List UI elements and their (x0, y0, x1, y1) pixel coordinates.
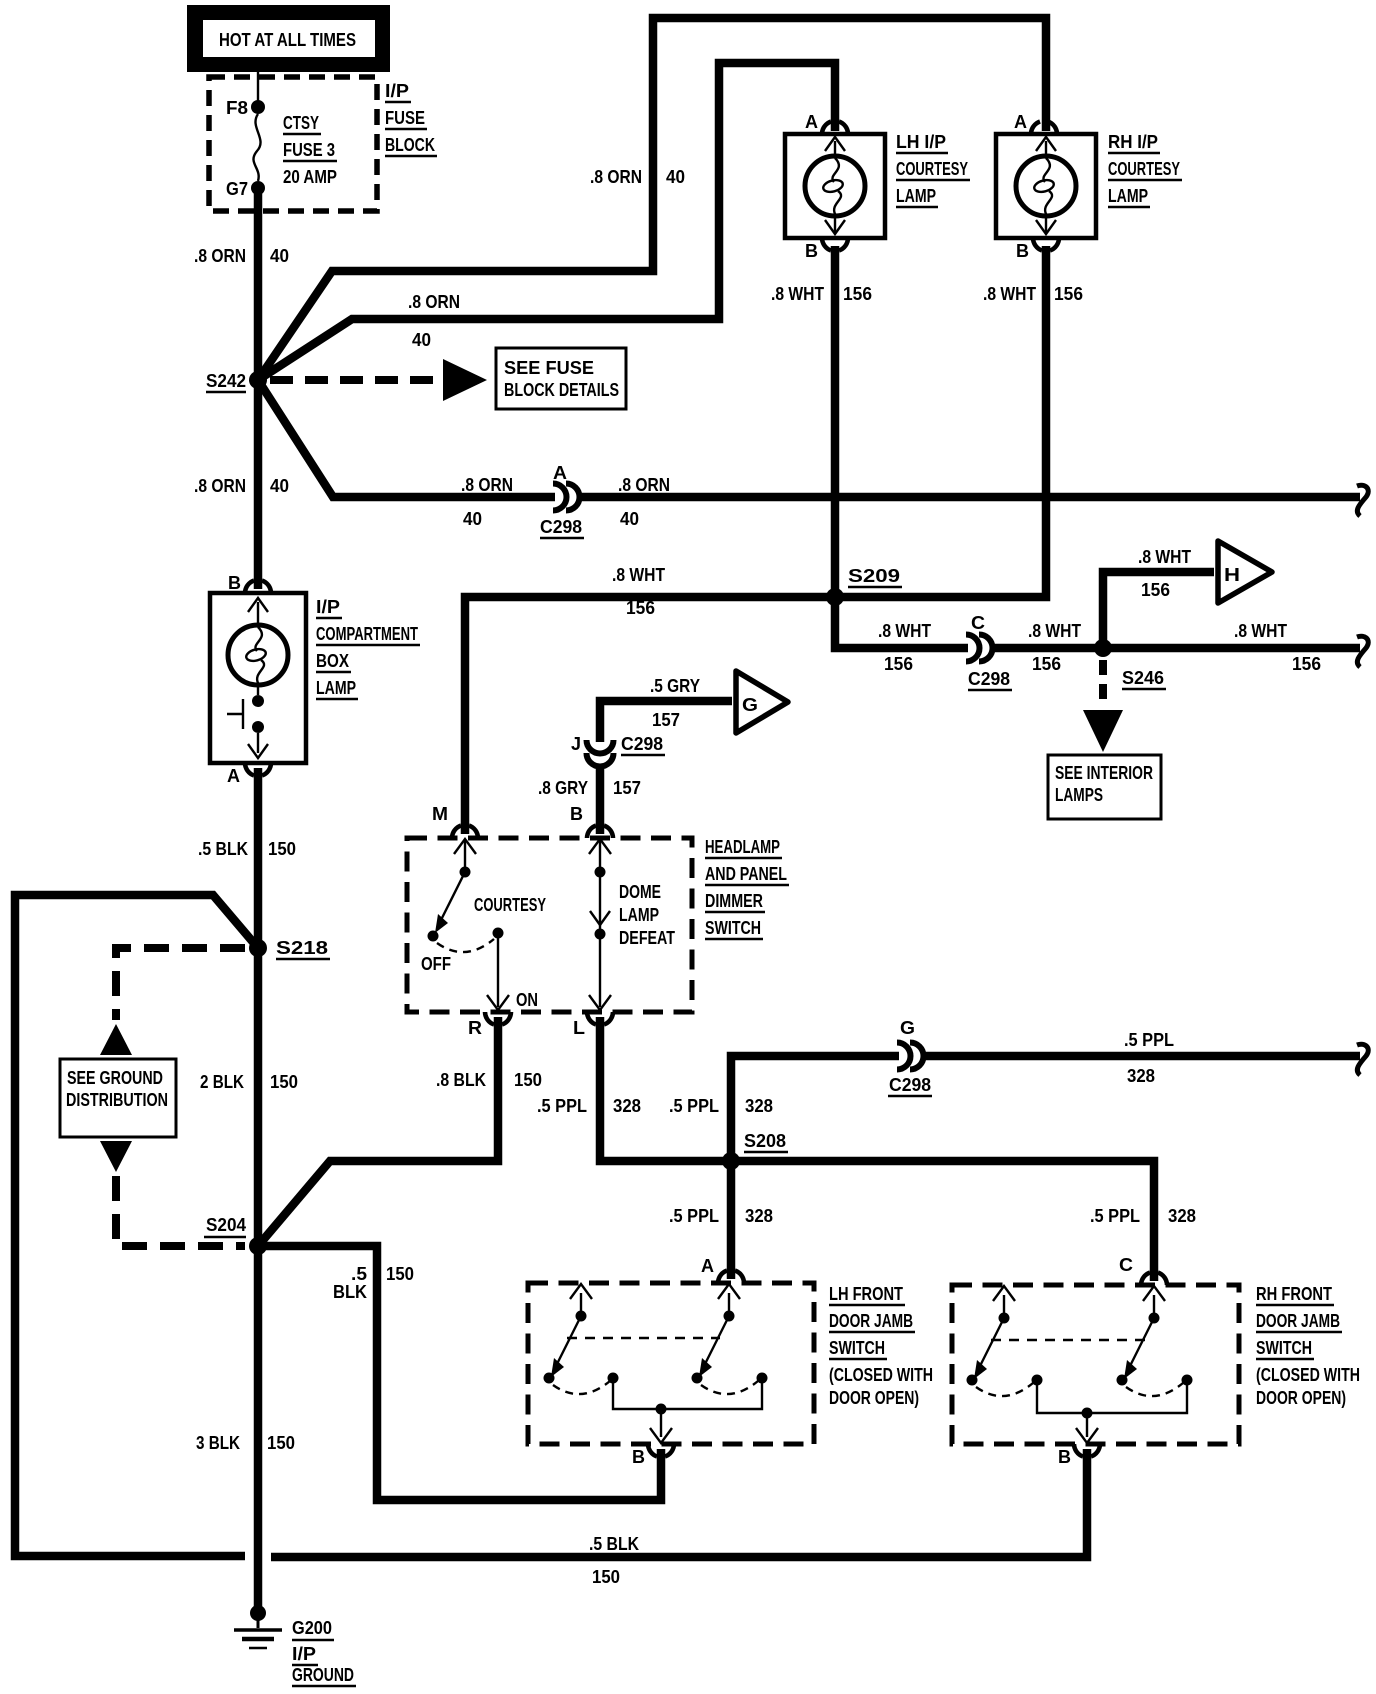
dashed link S218 to ground distribution (116, 948, 245, 1020)
switch label RH FRONT DOOR JAMB SWITCH (1256, 1284, 1360, 1408)
svg-text:40: 40 (620, 509, 639, 529)
svg-text:SEE GROUND: SEE GROUND (67, 1068, 163, 1088)
dashed arrow to fuse block details (270, 376, 441, 384)
svg-text:156: 156 (1292, 654, 1321, 674)
note box SEE FUSE BLOCK DETAILS (496, 348, 626, 409)
connector C298 pin C (966, 613, 1012, 690)
svg-text:RH I/P: RH I/P (1108, 132, 1158, 152)
ground G200 I/P GROUND (234, 1605, 356, 1686)
svg-text:C298: C298 (540, 517, 582, 537)
svg-text:DEFEAT: DEFEAT (619, 928, 675, 948)
svg-text:S208: S208 (744, 1131, 786, 1151)
svg-text:SEE FUSE: SEE FUSE (504, 358, 594, 378)
compartment lamp terminal B (228, 573, 271, 593)
RH door jamb switch terminal B (1058, 1444, 1100, 1467)
svg-text:.8 ORN: .8 ORN (590, 167, 642, 187)
svg-text:S209: S209 (848, 566, 900, 586)
splice node S209 (826, 588, 844, 606)
svg-text:B: B (632, 1447, 645, 1467)
svg-text:C298: C298 (621, 734, 663, 754)
splice node S246 (1094, 639, 1112, 657)
wire .8 GRY 157 J to dimmer switch B (596, 765, 605, 834)
svg-text:2 BLK: 2 BLK (200, 1072, 244, 1092)
lamp LH I/P COURTESY LAMP (785, 132, 970, 238)
svg-text:M: M (432, 804, 448, 824)
svg-text:I/P: I/P (316, 597, 340, 617)
svg-text:SWITCH: SWITCH (829, 1338, 885, 1358)
svg-text:AND PANEL: AND PANEL (705, 864, 787, 884)
splice node S218 (249, 939, 267, 957)
svg-text:BLK: BLK (333, 1282, 367, 1302)
switch RH FRONT DOOR JAMB dashed box (952, 1285, 1239, 1444)
svg-text:I/P: I/P (385, 81, 409, 101)
svg-text:156: 156 (626, 598, 655, 618)
dimmer switch courtesy contacts (421, 839, 546, 1010)
lamp I/P COMPARTMENT BOX LAMP (210, 593, 420, 763)
svg-text:OFF: OFF (421, 954, 451, 974)
svg-text:HOT AT ALL TIMES: HOT AT ALL TIMES (219, 30, 356, 50)
dimmer switch terminal M (432, 804, 478, 838)
svg-text:B: B (805, 241, 818, 261)
lamp RH I/P COURTESY LAMP (996, 132, 1182, 238)
wire .8 WHT 156 RH lamp B to S209 (840, 246, 1046, 597)
RH door jamb switch output junction (1076, 1408, 1098, 1444)
left return wire to S218 (15, 895, 258, 1556)
wire .8 WHT 156 S246 up to H (1103, 572, 1214, 648)
svg-text:SEE INTERIOR: SEE INTERIOR (1055, 763, 1153, 783)
svg-text:B: B (1016, 241, 1029, 261)
LH door jamb switch terminal B (632, 1444, 674, 1467)
dimmer switch dome lamp defeat contacts (589, 839, 675, 1010)
svg-text:C: C (1119, 1255, 1133, 1275)
RH courtesy lamp terminal B (1016, 238, 1059, 261)
splice node S208 (722, 1152, 740, 1170)
RH courtesy lamp terminal A (1014, 112, 1057, 134)
svg-text:DOOR OPEN): DOOR OPEN) (1256, 1388, 1346, 1408)
svg-text:FUSE: FUSE (385, 108, 425, 128)
dimmer switch terminal L (573, 1012, 613, 1038)
svg-text:H: H (1224, 565, 1240, 585)
wire .5 GRY 157 to G (600, 701, 732, 742)
svg-text:DIMMER: DIMMER (705, 891, 763, 911)
svg-text:DOME: DOME (619, 882, 661, 902)
svg-text:.8 WHT: .8 WHT (1138, 547, 1191, 567)
svg-text:ON: ON (516, 990, 538, 1010)
svg-text:F8: F8 (226, 98, 248, 118)
svg-text:BOX: BOX (316, 651, 349, 671)
LH door jamb switch output junction (650, 1404, 672, 1444)
svg-text:.5 PPL: .5 PPL (1124, 1030, 1174, 1050)
svg-text:156: 156 (1054, 284, 1083, 304)
dimmer switch terminal R (468, 1012, 511, 1038)
I/P fuse block dashed box (209, 77, 377, 211)
svg-text:328: 328 (1127, 1066, 1155, 1086)
svg-text:DOOR JAMB: DOOR JAMB (829, 1311, 913, 1331)
svg-text:BLOCK DETAILS: BLOCK DETAILS (504, 380, 619, 400)
off-page triangle H (1218, 541, 1272, 603)
svg-text:157: 157 (613, 778, 641, 798)
splice node S242 (249, 371, 267, 389)
svg-text:156: 156 (884, 654, 913, 674)
svg-text:.5 PPL: .5 PPL (537, 1096, 587, 1116)
svg-text:156: 156 (1141, 580, 1170, 600)
pin G7 (251, 181, 265, 195)
wire S242 to RH courtesy lamp A (outer loop) (258, 18, 1046, 380)
svg-text:FUSE 3: FUSE 3 (283, 140, 335, 160)
svg-text:SWITCH: SWITCH (705, 918, 761, 938)
svg-text:C298: C298 (968, 669, 1010, 689)
off-page triangle G (736, 671, 788, 733)
wire .5 BLK 150 S204 to LH door jamb B (258, 1246, 661, 1500)
dimmer switch terminal B (570, 804, 613, 838)
wire S242 to LH courtesy lamp A (inner loop) .8 ORN 40 (258, 63, 835, 380)
wire .8 WHT 156 S209 down to C298 C (835, 597, 968, 648)
svg-text:G: G (742, 695, 758, 715)
continuation hook (1357, 636, 1368, 667)
RH door jamb switch right contacts (1089, 1286, 1193, 1413)
LH door jamb switch terminal A (701, 1256, 744, 1283)
svg-text:SWITCH: SWITCH (1256, 1338, 1312, 1358)
svg-text:328: 328 (1168, 1206, 1196, 1226)
svg-text:150: 150 (386, 1264, 414, 1284)
svg-text:B: B (570, 804, 583, 824)
svg-text:156: 156 (1032, 654, 1061, 674)
svg-text:.8 ORN: .8 ORN (194, 476, 246, 496)
svg-text:LAMP: LAMP (896, 186, 936, 206)
power feed box HOT AT ALL TIMES (187, 5, 390, 72)
svg-text:157: 157 (652, 710, 680, 730)
svg-text:328: 328 (745, 1206, 773, 1226)
svg-text:.8 WHT: .8 WHT (771, 284, 824, 304)
svg-text:LH FRONT: LH FRONT (829, 1284, 903, 1304)
connector C298 pin G (888, 1018, 932, 1096)
svg-text:S246: S246 (1122, 668, 1164, 688)
wire .8 ORN 40 fuse to S242 (254, 193, 263, 589)
continuation hook (1357, 1044, 1368, 1075)
continuation hook (1357, 485, 1368, 516)
svg-text:B: B (228, 573, 241, 593)
wire .8 WHT 156 C298 to S246 (991, 644, 1360, 653)
pin F8 (251, 100, 265, 114)
svg-text:LAMP: LAMP (619, 905, 659, 925)
svg-text:A: A (227, 766, 240, 786)
svg-text:COURTESY: COURTESY (896, 159, 968, 179)
svg-text:328: 328 (745, 1096, 773, 1116)
svg-text:COURTESY: COURTESY (474, 895, 546, 915)
svg-text:150: 150 (270, 1072, 298, 1092)
dashed link ground distribution to S204 (100, 1141, 132, 1172)
note box SEE INTERIOR LAMPS (1048, 755, 1161, 819)
svg-text:.8 WHT: .8 WHT (878, 621, 931, 641)
svg-text:(CLOSED WITH: (CLOSED WITH (1256, 1365, 1360, 1385)
switch label HEADLAMP AND PANEL DIMMER SWITCH (705, 837, 789, 939)
svg-text:150: 150 (592, 1567, 620, 1587)
svg-text:.5 PPL: .5 PPL (669, 1096, 719, 1116)
svg-text:BLOCK: BLOCK (385, 135, 435, 155)
connector C298 pin A (540, 463, 584, 538)
svg-text:.8 ORN: .8 ORN (408, 292, 460, 312)
wire .5 PPL 328 S208 down to LH door jamb A (727, 1161, 736, 1279)
svg-text:S242: S242 (206, 371, 246, 391)
LH courtesy lamp terminal A (805, 112, 848, 134)
svg-text:40: 40 (270, 476, 289, 496)
wire .8 WHT 156 S209 to dimmer switch M (465, 597, 835, 834)
wire .8 BLK 150 dimmer R to S204 (258, 1017, 498, 1246)
svg-text:LAMP: LAMP (316, 678, 356, 698)
svg-text:.8 WHT: .8 WHT (612, 565, 665, 585)
wire .8 WHT 156 LH lamp B to S209 (831, 246, 840, 600)
svg-text:HEADLAMP: HEADLAMP (705, 837, 780, 857)
svg-text:328: 328 (613, 1096, 641, 1116)
wire .5 PPL 328 C298 G to right edge (922, 1052, 1360, 1061)
svg-text:150: 150 (268, 839, 296, 859)
svg-text:156: 156 (843, 284, 872, 304)
svg-text:.8 ORN: .8 ORN (461, 475, 513, 495)
svg-text:DOOR OPEN): DOOR OPEN) (829, 1388, 919, 1408)
svg-text:.5 BLK: .5 BLK (198, 839, 248, 859)
svg-text:R: R (468, 1018, 482, 1038)
svg-text:150: 150 (514, 1070, 542, 1090)
svg-text:CTSY: CTSY (283, 113, 319, 133)
svg-text:COMPARTMENT: COMPARTMENT (316, 624, 418, 644)
svg-text:.5 BLK: .5 BLK (589, 1534, 639, 1554)
svg-text:40: 40 (270, 246, 289, 266)
wire .5 PPL 328 S208 right to RH door jamb C (731, 1161, 1154, 1281)
svg-text:LAMP: LAMP (1108, 186, 1148, 206)
svg-text:150: 150 (267, 1433, 295, 1453)
switch HEADLAMP AND PANEL DIMMER SWITCH dashed box (407, 838, 692, 1012)
svg-text:40: 40 (463, 509, 482, 529)
svg-text:RH FRONT: RH FRONT (1256, 1284, 1332, 1304)
svg-text:LH I/P: LH I/P (896, 132, 946, 152)
svg-text:.8 WHT: .8 WHT (1234, 621, 1287, 641)
dashed arrow S246 to see interior lamps (1099, 660, 1107, 708)
svg-text:G200: G200 (292, 1618, 332, 1638)
RH door jamb switch left contacts (967, 1286, 1086, 1413)
LH door jamb switch gang link (567, 1337, 720, 1339)
svg-text:.8 ORN: .8 ORN (618, 475, 670, 495)
LH courtesy lamp terminal B (805, 238, 848, 261)
wire .5 BLK 150 bottom run to RH door jamb B (271, 1449, 1087, 1557)
svg-text:DOOR JAMB: DOOR JAMB (1256, 1311, 1340, 1331)
svg-text:I/P: I/P (292, 1644, 316, 1664)
svg-text:20 AMP: 20 AMP (283, 167, 337, 187)
svg-text:.8 WHT: .8 WHT (983, 284, 1036, 304)
svg-text:A: A (805, 112, 818, 132)
connector C298 pin J (571, 734, 665, 767)
svg-text:G7: G7 (226, 179, 248, 199)
svg-text:L: L (573, 1018, 585, 1038)
svg-text:.5: .5 (351, 1264, 367, 1284)
splice node S204 (249, 1237, 267, 1255)
svg-text:.8 GRY: .8 GRY (538, 778, 588, 798)
svg-text:COURTESY: COURTESY (1108, 159, 1180, 179)
svg-text:A: A (701, 1256, 714, 1276)
LH door jamb switch left contacts (544, 1284, 660, 1409)
svg-text:40: 40 (412, 330, 431, 350)
switch LH FRONT DOOR JAMB dashed box (528, 1283, 814, 1444)
fuse block label I/P FUSE BLOCK (385, 81, 437, 156)
svg-text:.8 BLK: .8 BLK (436, 1070, 486, 1090)
note box SEE GROUND DISTRIBUTION (60, 1059, 176, 1137)
svg-text:A: A (1014, 112, 1027, 132)
svg-text:DISTRIBUTION: DISTRIBUTION (66, 1090, 168, 1110)
switch label LH FRONT DOOR JAMB SWITCH (829, 1284, 933, 1408)
svg-text:B: B (1058, 1447, 1071, 1467)
svg-text:.5 PPL: .5 PPL (669, 1206, 719, 1226)
svg-text:3 BLK: 3 BLK (196, 1433, 240, 1453)
svg-text:.8 ORN: .8 ORN (194, 246, 246, 266)
wire from power box to fuse F8 (257, 72, 259, 103)
wire .5 PPL 328 dimmer L to S208 (600, 1017, 727, 1161)
svg-text:C298: C298 (889, 1075, 931, 1095)
svg-text:40: 40 (666, 167, 685, 187)
wire .8 ORN 40 to right edge (578, 493, 1360, 502)
svg-text:C: C (971, 613, 985, 633)
svg-text:(CLOSED WITH: (CLOSED WITH (829, 1365, 933, 1385)
RH door jamb switch terminal C (1119, 1255, 1167, 1285)
LH door jamb switch right contacts (663, 1284, 768, 1409)
svg-text:.8 WHT: .8 WHT (1028, 621, 1081, 641)
wire S242 right .8 ORN 40 to C298 A (258, 380, 555, 497)
svg-text:GROUND: GROUND (292, 1665, 354, 1685)
svg-text:.5 GRY: .5 GRY (650, 676, 700, 696)
fuse CTSY FUSE 3 20 AMP (253, 113, 337, 187)
compartment lamp terminal A (227, 763, 271, 786)
svg-text:J: J (571, 734, 581, 754)
wire .5 BLK 150 lamp A to S218 (254, 768, 263, 1613)
svg-text:LAMPS: LAMPS (1055, 785, 1103, 805)
svg-text:S204: S204 (206, 1215, 246, 1235)
svg-text:G: G (900, 1018, 915, 1038)
svg-text:S218: S218 (276, 938, 328, 958)
RH door jamb switch gang link (991, 1339, 1145, 1341)
wire .5 PPL 328 S208 up to C298 G (731, 1056, 899, 1161)
svg-text:A: A (553, 463, 567, 483)
svg-text:.5 PPL: .5 PPL (1090, 1206, 1140, 1226)
